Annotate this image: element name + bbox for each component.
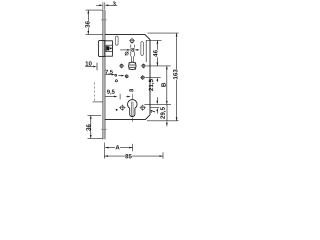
cylinder keyway bbox=[131, 102, 133, 116]
label 85 bbox=[125, 154, 132, 159]
label 3 bbox=[113, 1, 116, 5]
faceplate right line bbox=[104, 10, 106, 139]
label 9,5 bbox=[107, 90, 115, 95]
top hole crosshair bbox=[129, 38, 135, 44]
right ext line case bottom bbox=[147, 120, 179, 122]
dim 29,5 bbox=[166, 104, 168, 126]
latch inner rect bbox=[106, 45, 112, 51]
label 36 top bbox=[85, 21, 90, 28]
hidden line bottom bbox=[93, 101, 103, 103]
arrow to hole b bbox=[118, 75, 124, 77]
label 21,5 bbox=[149, 79, 154, 91]
arrow to centerline bbox=[126, 96, 131, 98]
label 8 bbox=[131, 47, 135, 52]
dim 163 bbox=[176, 33, 178, 121]
follower inner bars bbox=[129, 64, 135, 66]
right ext line follower bbox=[146, 65, 170, 67]
back hole crosshair bbox=[140, 75, 145, 80]
dim 85 bbox=[105, 155, 163, 157]
label 163 bbox=[173, 69, 178, 80]
dim 3 extension lines bbox=[102, 2, 104, 9]
latch bolt outer body bbox=[98, 40, 104, 56]
dim B bbox=[166, 66, 168, 104]
dim 85 right ext bbox=[162, 152, 164, 158]
label A bbox=[115, 145, 120, 150]
latch bolt head bbox=[105, 41, 113, 56]
slot in top plate bbox=[116, 36, 119, 45]
cylinder screw hole left bbox=[119, 105, 125, 111]
rotated 8 label mid bbox=[129, 89, 133, 92]
label 46 bbox=[153, 50, 158, 57]
latch dark dot bbox=[110, 47, 112, 49]
euro cylinder profile bbox=[128, 100, 137, 117]
bottom left ext line bbox=[103, 143, 105, 159]
faceplate left line bbox=[102, 10, 104, 139]
right ext line case top bbox=[148, 32, 179, 34]
faceplate screw tick top bbox=[101, 19, 107, 21]
dim 7,5 bbox=[105, 74, 115, 76]
dim 10 bbox=[85, 63, 97, 71]
small crosshair hole b bbox=[125, 74, 129, 78]
follower screw hole right bbox=[141, 63, 146, 68]
cylinder screw hole right bbox=[140, 105, 146, 111]
label B bbox=[161, 83, 165, 87]
follower square bbox=[129, 63, 136, 70]
follower circle bbox=[128, 62, 136, 70]
label diameter symbol bbox=[125, 52, 129, 56]
dim 21,5 bbox=[157, 78, 159, 82]
cylinder centerline bbox=[131, 94, 133, 100]
right ext line cylinder center bbox=[144, 103, 171, 105]
dim 9,5 bbox=[105, 94, 120, 100]
dim A bbox=[105, 147, 132, 149]
label 36 bottom bbox=[86, 124, 90, 131]
right ext line back hole bbox=[146, 77, 161, 79]
faceplate screw tick bottom bbox=[101, 128, 107, 130]
small hole c bbox=[115, 80, 117, 82]
dim 36 top bbox=[86, 10, 103, 34]
label 29,5 bbox=[160, 107, 165, 119]
dim 7 outside arrows bbox=[156, 97, 158, 113]
channel above follower bbox=[130, 45, 132, 57]
small dark hole d bbox=[116, 109, 118, 111]
label 7,5 bbox=[105, 70, 112, 75]
label 10 bbox=[86, 61, 92, 65]
label 7 bbox=[151, 110, 155, 113]
right ext line top hole bbox=[146, 39, 161, 41]
inner vertical line near case back bbox=[145, 40, 147, 62]
dimension d8 arrows bbox=[120, 49, 139, 51]
follower screw hole left bbox=[119, 63, 124, 68]
slot near case back bbox=[141, 42, 143, 56]
lock case outline bbox=[105, 34, 150, 119]
small hole a bbox=[115, 74, 117, 76]
dim 46 bbox=[157, 40, 159, 66]
dim 36 bottom bbox=[88, 115, 104, 138]
latch dark block bbox=[106, 46, 109, 50]
dim A right ext bbox=[132, 144, 134, 151]
dashed hidden line bbox=[94, 82, 96, 101]
right ext line cyl screws bbox=[150, 107, 159, 109]
dim 3 arrows bbox=[96, 4, 117, 6]
